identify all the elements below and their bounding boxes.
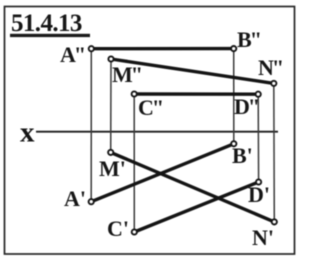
node B": [231, 46, 236, 51]
node C": [132, 91, 137, 96]
segment M"N": [111, 59, 274, 83]
projection line A"A': [90, 49, 92, 202]
svg-text:N': N': [252, 225, 274, 250]
node N": [271, 81, 276, 86]
svg-text:A': A': [64, 186, 86, 211]
node D': [256, 179, 261, 184]
projection line D"D': [257, 94, 259, 182]
svg-text:D": D": [234, 94, 260, 119]
node D": [256, 92, 261, 97]
projection line M"M': [110, 59, 112, 152]
segment A"B": [91, 47, 233, 51]
segment C"D": [134, 92, 258, 96]
node A": [89, 46, 94, 51]
node B': [231, 141, 236, 146]
projection line B"B': [233, 49, 235, 144]
x axis: [36, 131, 278, 133]
svg-text:C": C": [138, 95, 164, 120]
svg-text:51.4.13: 51.4.13: [11, 10, 82, 37]
node A': [89, 199, 94, 204]
svg-text:A": A": [60, 42, 86, 67]
svg-text:M': M': [99, 156, 126, 181]
title underline: [10, 34, 90, 37]
projection line N"N': [273, 83, 276, 222]
svg-text:B': B': [232, 143, 253, 168]
projection line C"C': [133, 94, 135, 232]
svg-text:D': D': [248, 182, 270, 207]
node C': [132, 229, 137, 234]
segment M'N': [111, 152, 275, 222]
node N': [272, 219, 277, 224]
svg-text:x: x: [20, 117, 35, 149]
node M': [108, 150, 113, 155]
svg-text:B": B": [237, 27, 262, 52]
svg-text:C': C': [107, 216, 129, 241]
segment C'D': [134, 182, 258, 232]
node M": [108, 56, 113, 61]
segment A'B': [91, 144, 234, 202]
svg-text:N": N": [258, 55, 284, 80]
svg-text:M": M": [112, 62, 143, 87]
